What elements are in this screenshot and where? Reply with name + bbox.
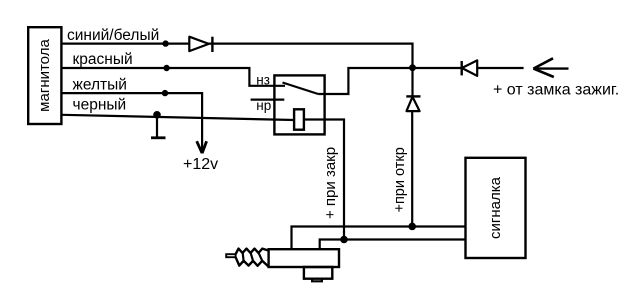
svg-text:магнитола: магнитола: [36, 39, 53, 112]
svg-text:нз: нз: [256, 72, 270, 87]
actuator lower block: [304, 267, 332, 279]
node A junction: [409, 64, 416, 71]
wire lower horizontal to сигналка: [320, 240, 466, 250]
svg-text:красный: красный: [73, 51, 133, 68]
node on black wire: [153, 111, 161, 119]
node on blue/white wire: [162, 40, 168, 46]
wire relay common to node A: [318, 68, 412, 94]
node on lower wire (+при закр): [340, 236, 348, 244]
node on upper wire (+при откр): [408, 223, 416, 231]
diode D3 pointing up: [406, 96, 420, 111]
ground: [151, 115, 166, 138]
node on red wire: [163, 65, 169, 71]
svg-text:+12v: +12v: [183, 156, 218, 173]
svg-text:+при откр: +при откр: [392, 147, 408, 212]
svg-text:сигналка: сигналка: [487, 176, 504, 239]
actuator bottom tab: [312, 279, 322, 282]
diode D2 pointing left: [462, 60, 478, 76]
head unit box (магнитола): [28, 27, 61, 124]
wire black from магнитола to relay coil: [62, 115, 295, 120]
wire diode D2 to ignition: [477, 67, 523, 69]
wire node A to diode D3: [411, 68, 413, 96]
wire yellow from магнитола: [62, 93, 202, 153]
relay coil K1: [294, 109, 304, 129]
relay box: [274, 75, 324, 134]
svg-text:желтый: желтый: [73, 77, 127, 94]
svg-text:черный: черный: [73, 97, 127, 114]
svg-text:синий/белый: синий/белый: [67, 27, 159, 44]
wire +при откр vertical: [411, 111, 413, 226]
wire node A to diode D2: [413, 67, 462, 69]
wire red from магнитола to relay NC contact: [62, 68, 285, 86]
actuator body: [269, 249, 339, 267]
arrow to +12v: [197, 141, 207, 153]
wire upper horizontal to сигналка: [292, 227, 466, 250]
relay switch blade: [283, 83, 319, 95]
actuator rod: [226, 254, 235, 257]
wire blue/white from магнитола: [62, 42, 212, 44]
svg-text:+ от замка зажиг.: + от замка зажиг.: [493, 82, 619, 99]
svg-text:+ при закр: + при закр: [322, 147, 339, 219]
actuator bellows: [236, 249, 270, 268]
wire blue/white from diode to top-right corner: [212, 44, 412, 68]
node on yellow wire: [162, 90, 168, 96]
alarm box (сигналка): [466, 158, 526, 258]
diode D1 on blue/white wire: [189, 37, 212, 52]
arrow from ignition lock: [533, 58, 568, 77]
relay NO contact stub: [251, 98, 285, 100]
wire coil to +при закр line: [304, 120, 344, 240]
